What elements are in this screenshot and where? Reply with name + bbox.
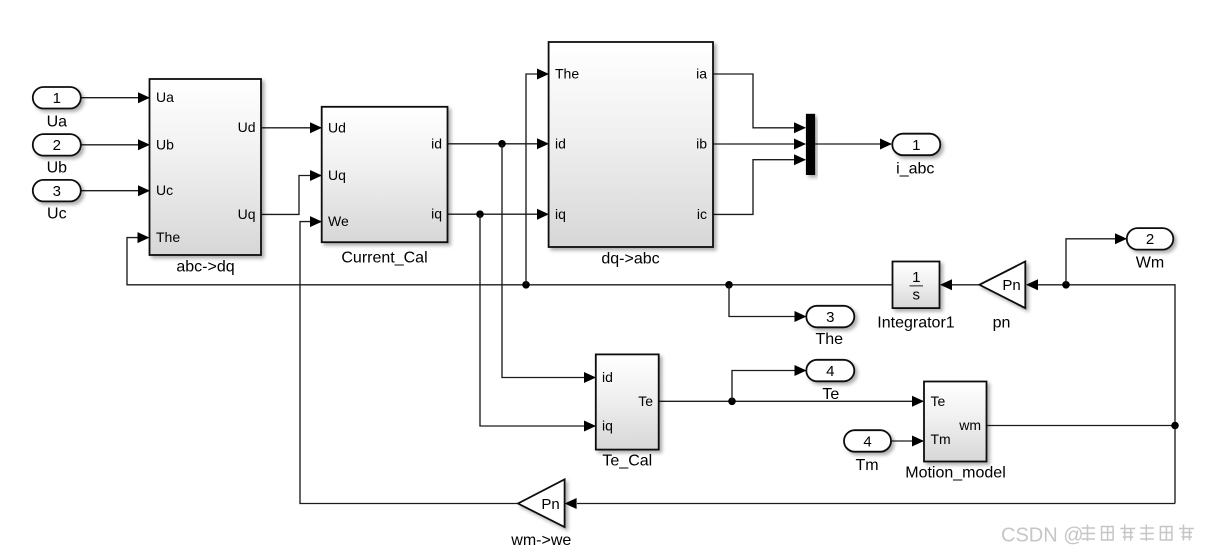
svg-text:id: id [431,135,442,151]
outport 3 The [806,306,854,328]
wire tap ->In Wm oval [1066,233,1127,284]
junction Te tap [728,398,736,406]
svg-text:2: 2 [53,137,61,154]
svg-text:Te_Cal: Te_Cal [602,453,652,470]
svg-text:4: 4 [863,433,871,450]
svg-text:ic: ic [697,206,707,222]
svg-text:Uq: Uq [328,167,346,183]
label Motion_model [905,465,1006,482]
svg-text:Tm: Tm [855,457,878,474]
svg-text:1: 1 [53,90,61,107]
svg-text:s: s [913,286,921,303]
svg-text:Wm: Wm [1136,255,1164,272]
inport 2 Wm [1127,228,1174,250]
svg-text:1: 1 [912,269,920,286]
label The [816,331,844,348]
svg-text:Current_Cal: Current_Cal [341,250,427,267]
inport 2 [33,134,81,156]
svg-text:Pn: Pn [541,496,559,513]
svg-text:wm: wm [958,417,981,433]
svg-text:pn: pn [993,314,1011,331]
subsystem Te_Cal [596,354,659,449]
wire iq Current_Cal->dq-abc [448,209,550,220]
svg-text:We: We [328,213,349,229]
label Tm [855,457,878,474]
wire right vertical bus [1026,279,1175,503]
wire wm-we gain ->Current_Cal We [300,216,518,503]
wire Integrator1->abc-dq The feedback [127,232,893,285]
subsystem Current_Cal [322,107,448,242]
wire bottom bus ->wm-we gain [565,498,1175,509]
label Te_Cal [602,453,652,470]
label Integrator1 [877,314,954,331]
wire tap ->Out3 The [729,285,807,322]
wire tap ->Out4 Te [732,365,807,401]
label Current_Cal [341,250,427,267]
svg-text:The: The [816,331,844,348]
subsystem abc->dq [150,79,262,255]
wire iq branch ->Te_Cal [480,214,596,431]
inport 3 [33,180,81,202]
wire tap ->dq-abc The [526,69,549,285]
svg-text:The: The [156,229,180,245]
svg-text:Pn: Pn [1002,277,1020,294]
svg-text:Ub: Ub [47,160,68,177]
junction id branch [498,140,506,148]
svg-text:The: The [555,66,579,82]
svg-text:iq: iq [602,418,613,434]
svg-text:iq: iq [555,206,566,222]
svg-text:2: 2 [1146,231,1154,248]
svg-text:Ub: Ub [156,137,174,153]
svg-text:ia: ia [696,66,707,82]
label abc->dq [176,259,234,276]
svg-text:Ua: Ua [156,89,174,105]
label Ub [47,160,68,177]
svg-text:CSDN @: CSDN @ [1001,525,1084,547]
wire id branch ->Te_Cal [502,144,596,383]
mux i_abc [806,114,815,175]
svg-text:Motion_model: Motion_model [905,465,1006,482]
label Te [822,386,839,403]
svg-text:Uq: Uq [238,206,256,222]
svg-text:abc->dq: abc->dq [176,259,234,276]
subsystem dq->abc [549,42,713,247]
junction The outport tap [725,281,733,289]
label Ua [47,113,68,130]
svg-text:Te: Te [931,393,946,409]
svg-text:Ua: Ua [47,113,68,130]
wire ib dq-abc->Mux [713,139,806,150]
gain pn (triangle) [979,262,1025,309]
label dq->abc [601,251,659,268]
svg-text:Integrator1: Integrator1 [877,314,954,331]
junction wm bus [1171,422,1179,430]
integrator U 1/s [893,262,940,309]
label Uc [47,206,67,223]
wire Te_Cal->Motion_model [659,396,924,407]
outport 4 Te [806,360,854,382]
svg-text:Uc: Uc [156,182,173,198]
svg-text:dq->abc: dq->abc [601,251,659,268]
label wm->we [510,532,571,549]
svg-text:id: id [555,135,566,151]
wire In4 Tm->Motion_model [891,436,924,447]
inport 4 Tm [844,430,891,452]
svg-text:Tm: Tm [931,431,951,447]
junction Wm tap [1062,281,1070,289]
junction iq branch [476,210,484,218]
wire ic dq-abc->Mux [713,154,806,214]
label pn [993,314,1011,331]
svg-text:1: 1 [912,137,920,154]
wire Motion_model wm -> right bus [987,425,1176,427]
wire id Current_Cal->dq-abc [448,138,550,149]
svg-text:i_abc: i_abc [896,160,934,177]
wire Uq abc-dq->Current_Cal [262,170,323,214]
svg-text:Ud: Ud [328,119,346,135]
label Wm [1136,255,1164,272]
svg-text:id: id [602,369,613,385]
wire In2->abc-dq Ub [81,139,151,150]
watermark CSDN [1001,525,1194,547]
inport 1 [33,87,81,109]
wire Ud abc-dq->Current_Cal [262,122,323,133]
wire Mux->Out1 i_abc [815,139,892,150]
wire ia dq-abc->Mux [713,74,806,133]
junction The->dq-abc tap [522,281,530,289]
outport 1 i_abc [892,134,940,156]
svg-text:Te: Te [638,393,653,409]
wire In1->abc-dq Ua [81,92,151,103]
subsystem Motion_model [924,382,987,462]
svg-text:iq: iq [431,206,442,222]
wire In3->abc-dq Uc [81,185,151,196]
svg-text:4: 4 [826,363,834,380]
svg-text:Uc: Uc [47,206,67,223]
svg-text:Te: Te [822,386,839,403]
gain wm->we (triangle) [518,479,565,527]
svg-text:Ud: Ud [238,119,256,135]
svg-text:wm->we: wm->we [510,532,571,549]
svg-text:ib: ib [696,136,707,152]
label i_abc [896,160,934,177]
svg-text:3: 3 [53,183,61,200]
svg-text:3: 3 [826,309,834,326]
wire pn->Integrator1 [940,279,980,290]
